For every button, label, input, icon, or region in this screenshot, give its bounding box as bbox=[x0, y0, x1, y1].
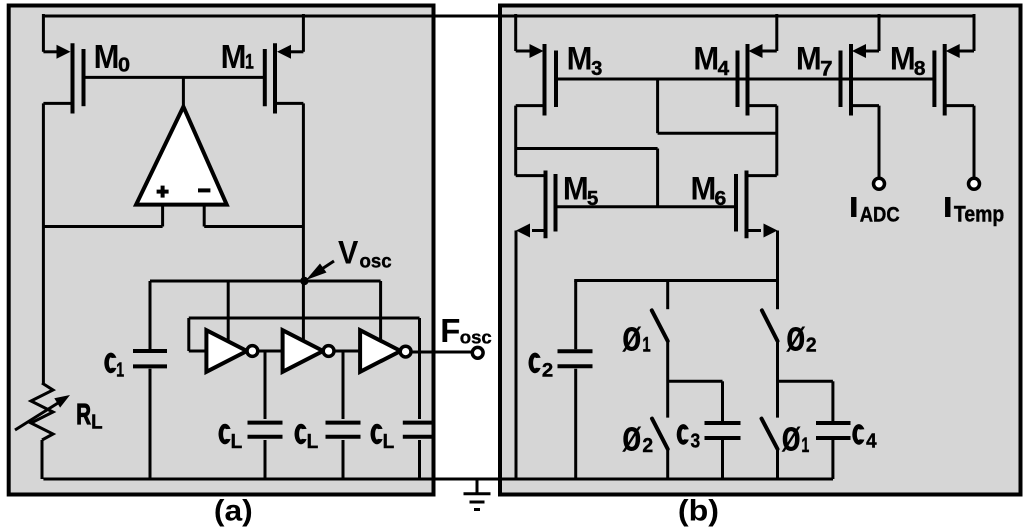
svg-text:2: 2 bbox=[806, 334, 817, 357]
svg-text:osc: osc bbox=[359, 251, 391, 273]
svg-text:(b): (b) bbox=[678, 494, 719, 527]
svg-text:M: M bbox=[693, 40, 719, 77]
svg-text:L: L bbox=[91, 411, 102, 434]
svg-text:2: 2 bbox=[642, 434, 653, 457]
svg-text:ø: ø bbox=[622, 413, 642, 461]
svg-text:1: 1 bbox=[245, 50, 254, 74]
svg-text:L: L bbox=[307, 431, 319, 454]
svg-text:ø: ø bbox=[622, 313, 642, 361]
svg-text:F: F bbox=[440, 312, 460, 349]
svg-text:M: M bbox=[567, 40, 593, 77]
svg-text:L: L bbox=[231, 431, 243, 454]
svg-text:ø: ø bbox=[781, 413, 801, 461]
svg-text:8: 8 bbox=[914, 57, 926, 79]
svg-text:3: 3 bbox=[591, 58, 602, 80]
svg-text:V: V bbox=[338, 233, 358, 270]
svg-text:4: 4 bbox=[866, 430, 876, 453]
svg-text:M: M bbox=[563, 170, 589, 207]
svg-text:ø: ø bbox=[786, 313, 806, 361]
svg-text:1: 1 bbox=[801, 433, 809, 456]
svg-text:I: I bbox=[943, 192, 954, 224]
svg-text:1: 1 bbox=[116, 358, 124, 381]
svg-text:osc: osc bbox=[460, 327, 492, 348]
svg-text:6: 6 bbox=[714, 187, 726, 209]
svg-text:2: 2 bbox=[542, 360, 553, 382]
svg-text:R: R bbox=[76, 399, 91, 431]
svg-text:Temp: Temp bbox=[954, 202, 1004, 226]
svg-text:I: I bbox=[849, 192, 860, 224]
svg-text:M: M bbox=[691, 170, 717, 207]
svg-text:M: M bbox=[94, 38, 120, 75]
svg-text:5: 5 bbox=[587, 187, 598, 210]
svg-text:3: 3 bbox=[691, 429, 701, 451]
svg-text:0: 0 bbox=[118, 54, 130, 76]
svg-text:4: 4 bbox=[718, 57, 730, 80]
svg-text:ADC: ADC bbox=[860, 203, 900, 227]
svg-text:M: M bbox=[221, 38, 247, 75]
svg-text:1: 1 bbox=[642, 333, 650, 356]
svg-text:L: L bbox=[383, 431, 395, 454]
svg-text:M: M bbox=[890, 40, 916, 77]
svg-text:M: M bbox=[796, 40, 822, 77]
svg-text:(a): (a) bbox=[214, 494, 253, 528]
svg-text:7: 7 bbox=[820, 56, 832, 80]
